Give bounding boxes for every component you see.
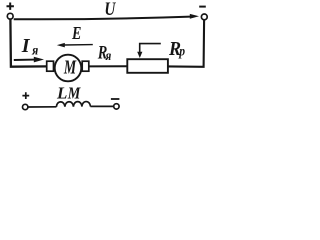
plus terminal bottom-left [22, 92, 29, 99]
resistor Rp rectangle [127, 59, 168, 73]
svg-text:р: р [178, 44, 185, 59]
svg-text:я: я [105, 49, 112, 64]
EMF arrow E [64, 44, 93, 46]
terminal circle bottom-left [23, 104, 28, 109]
wire right side down to rheostat [168, 20, 204, 67]
svg-text:M: M [67, 84, 81, 103]
svg-text:L: L [56, 84, 67, 103]
left brush square of motor [47, 61, 54, 71]
rheostat adjustment arrow [140, 44, 161, 54]
terminal circle top-left [7, 13, 13, 19]
terminal circle top-right [201, 14, 207, 20]
svg-text:E: E [71, 23, 81, 43]
right brush square of motor [82, 61, 89, 71]
terminal circle bottom-right [114, 104, 119, 109]
wire left side from + down to motor [10, 19, 46, 67]
arrowhead of U [190, 14, 199, 19]
wire motor to rheostat [89, 65, 128, 67]
svg-text:I: I [21, 35, 31, 57]
wire to field coil [28, 106, 57, 108]
svg-text:M: M [63, 56, 76, 78]
wire coil to terminal [90, 105, 113, 107]
minus sign bottom-right [111, 98, 120, 100]
current arrow Ia [14, 59, 36, 61]
plus terminal top-left [7, 3, 14, 10]
voltage arrow U wire [14, 17, 191, 20]
motor M1 circle [55, 55, 82, 82]
svg-text:U: U [104, 0, 116, 20]
svg-text:я: я [31, 43, 38, 58]
field winding coil LM [56, 102, 90, 107]
minus sign top-right [199, 6, 206, 8]
